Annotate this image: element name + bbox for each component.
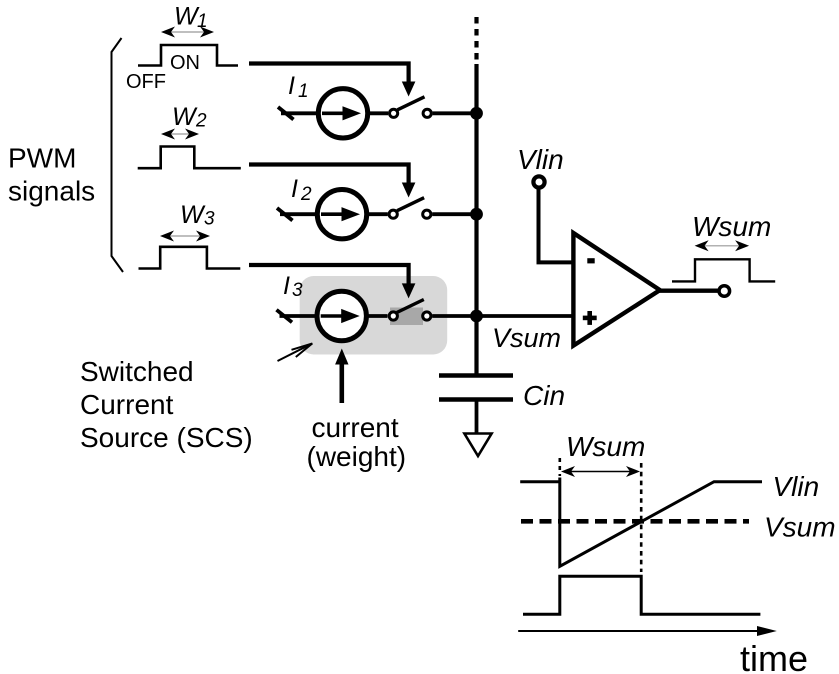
svg-text:Vlin: Vlin <box>773 471 820 502</box>
ground <box>464 434 491 457</box>
svg-text:Vlin: Vlin <box>517 144 564 175</box>
svg-text:W: W <box>180 201 206 229</box>
pwm waveform 3 <box>139 247 241 269</box>
pwm waveform 1 <box>138 45 238 66</box>
svg-text:current: current <box>312 412 399 443</box>
svg-text:Wsum: Wsum <box>566 431 645 462</box>
timing time axis <box>518 626 777 636</box>
timing dotted marker left <box>558 458 561 476</box>
svg-text:(weight): (weight) <box>307 441 407 472</box>
brace for PWM signals <box>112 38 124 272</box>
op-amp comparator U1 <box>573 233 660 346</box>
width arrow Wsum <box>695 240 750 251</box>
svg-text:I: I <box>288 72 295 100</box>
wire S2 to bus <box>432 212 476 216</box>
width arrow W1 <box>161 27 214 38</box>
svg-text:Switched: Switched <box>80 356 194 387</box>
current source I3 <box>277 291 388 340</box>
Wsum pulse icon <box>672 259 775 281</box>
timing Wsum pulse trace <box>523 576 760 614</box>
svg-text:Current: Current <box>80 389 174 420</box>
svg-text:Vsum: Vsum <box>492 323 561 353</box>
svg-text:signals: signals <box>8 175 95 206</box>
wire S1 to bus <box>433 111 477 115</box>
svg-text:PWM: PWM <box>8 143 76 174</box>
svg-text:2: 2 <box>300 184 312 205</box>
junction node 1 <box>470 107 483 120</box>
SCS switch dark shade <box>390 308 423 326</box>
svg-text:W: W <box>172 103 198 131</box>
SCS highlight box <box>300 276 448 355</box>
timing width arrow <box>561 466 640 477</box>
width arrow W3 <box>160 231 210 242</box>
svg-text:time: time <box>740 638 808 674</box>
svg-text:2: 2 <box>195 111 207 132</box>
junction node 2 <box>470 208 483 221</box>
svg-text:1: 1 <box>298 81 309 102</box>
output terminal <box>719 286 730 297</box>
junction node 3 (Vsum) <box>470 310 483 323</box>
svg-text:1: 1 <box>197 11 208 32</box>
width arrow W2 <box>161 129 199 140</box>
annotation arrow current (weight) <box>335 349 348 404</box>
switch S1 <box>390 97 432 118</box>
svg-text:3: 3 <box>204 209 215 230</box>
wire PWM3 to switch S3 control <box>249 265 409 286</box>
svg-text:Vsum: Vsum <box>764 512 836 543</box>
wire S3 to bus and comparator + input <box>432 314 573 318</box>
wire PWM1 to switch S1 control <box>249 64 409 85</box>
svg-text:I: I <box>291 175 298 203</box>
svg-text:OFF: OFF <box>126 71 166 93</box>
current source I2 <box>277 190 388 239</box>
annotation arrow to SCS <box>278 343 313 361</box>
bus vertical wire <box>474 64 478 375</box>
pwm waveform 2 <box>138 147 241 169</box>
svg-text:I: I <box>283 272 290 300</box>
svg-text:Cin: Cin <box>523 380 565 411</box>
bus dashed continuation <box>474 17 478 62</box>
capacitor Cin <box>439 376 513 435</box>
timing dotted marker right <box>640 463 643 572</box>
switch S3 <box>389 300 431 321</box>
current source I1 <box>278 89 388 138</box>
svg-text:3: 3 <box>292 280 303 301</box>
svg-text:Source (SCS): Source (SCS) <box>80 422 253 453</box>
wire Vlin to comparator - input <box>539 188 574 262</box>
svg-text:ON: ON <box>170 52 200 74</box>
terminal Vlin <box>533 176 544 187</box>
timing Vlin trace <box>520 478 762 567</box>
svg-text:Wsum: Wsum <box>692 211 771 242</box>
wire PWM2 to switch S2 control <box>249 165 409 186</box>
switch S2 <box>389 198 431 219</box>
output wire <box>658 289 718 293</box>
timing Vsum dashed level <box>521 519 749 524</box>
